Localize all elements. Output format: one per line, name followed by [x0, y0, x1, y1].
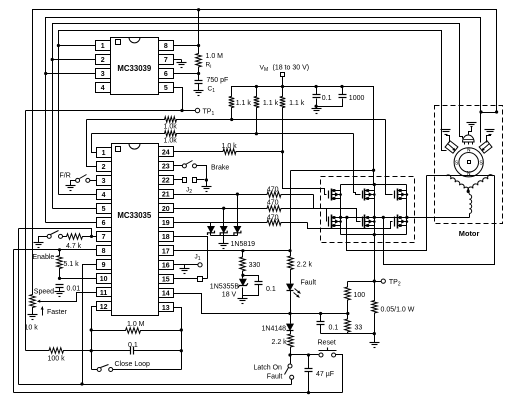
svg-text:1: 1 [101, 43, 105, 50]
svg-text:1.0 k: 1.0 k [222, 143, 238, 150]
svg-text:1.0 M: 1.0 M [206, 53, 224, 60]
svg-text:1.0k: 1.0k [164, 124, 178, 131]
svg-text:10 k: 10 k [25, 324, 39, 331]
svg-text:22: 22 [162, 178, 170, 185]
svg-text:24: 24 [162, 149, 170, 156]
svg-text:47 µF: 47 µF [316, 371, 334, 378]
svg-text:Fault: Fault [267, 374, 283, 381]
svg-text:470: 470 [267, 199, 279, 206]
svg-text:1000: 1000 [349, 95, 365, 102]
svg-text:17: 17 [162, 248, 170, 255]
svg-text:1: 1 [102, 150, 106, 157]
svg-text:Fault: Fault [301, 279, 317, 286]
svg-text:Motor: Motor [459, 229, 480, 238]
svg-text:2.2 k: 2.2 k [272, 339, 288, 346]
svg-text:1.0k: 1.0k [164, 138, 178, 145]
svg-text:MC33039: MC33039 [117, 64, 151, 73]
svg-text:1N5819: 1N5819 [231, 241, 256, 248]
svg-text:470: 470 [267, 215, 279, 222]
svg-text:470: 470 [267, 186, 279, 193]
svg-text:(18 to 30 V): (18 to 30 V) [273, 65, 310, 72]
svg-text:23: 23 [162, 163, 170, 170]
svg-text:15: 15 [162, 277, 170, 284]
svg-text:3: 3 [102, 178, 106, 185]
svg-text:1.1 k: 1.1 k [236, 100, 252, 107]
svg-text:9: 9 [102, 262, 106, 269]
svg-text:Brake: Brake [211, 164, 229, 171]
svg-text:1.1 k: 1.1 k [289, 100, 305, 107]
svg-text:2: 2 [102, 164, 106, 171]
svg-text:4: 4 [101, 85, 105, 92]
svg-text:750 pF: 750 pF [207, 77, 229, 84]
svg-text:12: 12 [100, 304, 108, 311]
svg-text:Close Loop: Close Loop [115, 361, 151, 368]
svg-text:18: 18 [162, 234, 170, 241]
svg-text:Speed: Speed [34, 289, 54, 296]
svg-text:0.01: 0.01 [67, 285, 81, 292]
svg-text:F/R: F/R [60, 173, 71, 180]
svg-text:Reset: Reset [318, 340, 336, 347]
svg-text:1N4148: 1N4148 [262, 325, 287, 332]
svg-text:Latch On: Latch On [254, 364, 283, 371]
svg-text:6: 6 [102, 220, 106, 227]
svg-text:13: 13 [162, 305, 170, 312]
svg-text:8: 8 [102, 248, 106, 255]
svg-text:0.05/1.0 W: 0.05/1.0 W [381, 307, 415, 314]
svg-text:0.1: 0.1 [322, 95, 332, 102]
svg-text:19: 19 [162, 220, 170, 227]
svg-text:100: 100 [354, 292, 366, 299]
svg-text:7: 7 [102, 234, 106, 241]
svg-text:0.1: 0.1 [329, 324, 339, 331]
svg-text:Enable: Enable [33, 254, 55, 261]
svg-text:5.1 k: 5.1 k [64, 261, 80, 268]
svg-text:0.1: 0.1 [266, 286, 276, 293]
svg-text:14: 14 [162, 291, 170, 298]
svg-text:20: 20 [162, 206, 170, 213]
svg-text:33: 33 [355, 324, 363, 331]
svg-text:16: 16 [162, 262, 170, 269]
svg-text:6: 6 [164, 71, 168, 78]
svg-text:11: 11 [100, 290, 108, 297]
svg-text:Faster: Faster [47, 309, 68, 316]
svg-text:1N5355B: 1N5355B [210, 283, 240, 290]
svg-text:2.2 k: 2.2 k [297, 262, 313, 269]
svg-text:1.0 M: 1.0 M [127, 321, 145, 328]
svg-text:0.1: 0.1 [128, 342, 138, 349]
svg-text:4.7 k: 4.7 k [66, 243, 82, 250]
svg-text:18 V: 18 V [222, 292, 237, 299]
svg-text:100 k: 100 k [48, 355, 66, 362]
svg-text:21: 21 [162, 192, 170, 199]
svg-text:7: 7 [164, 57, 168, 64]
svg-text:1.1 k: 1.1 k [263, 100, 279, 107]
svg-text:5: 5 [164, 85, 168, 92]
svg-text:330: 330 [249, 262, 261, 269]
svg-text:4: 4 [102, 192, 106, 199]
svg-text:3: 3 [101, 71, 105, 78]
svg-text:MC33035: MC33035 [117, 211, 151, 220]
svg-text:10: 10 [100, 276, 108, 283]
svg-text:2: 2 [101, 57, 105, 64]
svg-text:5: 5 [102, 206, 106, 213]
svg-text:N: N [467, 148, 471, 154]
svg-text:8: 8 [164, 43, 168, 50]
